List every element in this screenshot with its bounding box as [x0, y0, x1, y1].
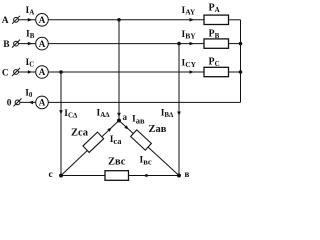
- arrow current IB-delta on dropper: [177, 112, 181, 117]
- svg-text:A: A: [39, 67, 46, 77]
- svg-text:IC∆: IC∆: [64, 109, 78, 120]
- wire phase B from ammeter to resistor PB: [48, 43, 204, 45]
- svg-text:IAY: IAY: [182, 6, 196, 17]
- node b dot: [177, 174, 181, 178]
- impedance Zca: [83, 132, 104, 152]
- arrow current Iab on leg a-b: [124, 125, 129, 129]
- wire neutral 0 from ammeter to right bus: [48, 101, 240, 103]
- svg-text:IBY: IBY: [182, 30, 197, 41]
- svg-text:Iвс: Iвс: [140, 156, 152, 167]
- wire phase C from terminal to ammeter: [18, 71, 35, 73]
- wire dropper phase B to node b: [178, 44, 180, 176]
- arrow current I0 pointing left: [29, 101, 33, 105]
- wire delta leg a to b: [119, 121, 179, 176]
- ammeter phase A: [36, 13, 49, 26]
- terminal A: [12, 16, 20, 24]
- svg-text:IA∆: IA∆: [97, 109, 111, 120]
- ammeter phase B: [36, 37, 49, 50]
- svg-text:0: 0: [7, 99, 12, 109]
- terminal C: [12, 68, 20, 76]
- svg-text:IA: IA: [26, 6, 35, 16]
- junction dot phase C dropper: [59, 70, 63, 74]
- junction dot bus row C: [239, 70, 243, 74]
- ammeter phase C: [36, 66, 49, 79]
- arrow current ICY: [190, 70, 195, 74]
- svg-text:Zав: Zав: [149, 124, 167, 135]
- wire dropper phase A to node a: [118, 20, 120, 121]
- wire delta leg b to c: [61, 175, 179, 177]
- svg-text:Iав: Iав: [132, 115, 145, 126]
- wire delta leg c to a: [61, 121, 119, 176]
- svg-text:IB: IB: [26, 30, 35, 41]
- impedance Zbc: [105, 171, 129, 181]
- terminal 0: [14, 98, 22, 106]
- impedance Zab: [131, 130, 152, 150]
- resistor PB: [204, 39, 229, 48]
- wire phase C from ammeter to resistor PC: [48, 71, 204, 73]
- wire stub PB to bus: [229, 43, 241, 45]
- svg-text:A: A: [39, 39, 46, 49]
- junction dot phase B dropper: [177, 42, 181, 46]
- svg-text:ICY: ICY: [182, 59, 197, 70]
- svg-text:B: B: [3, 40, 10, 50]
- wire stub PC to bus: [229, 71, 241, 73]
- node a dot: [117, 119, 121, 123]
- node c dot: [59, 174, 63, 178]
- wire dropper phase C to node c: [60, 72, 62, 176]
- wire right bus vertical: [240, 20, 242, 103]
- arrow current IAY: [190, 18, 195, 22]
- svg-text:IC: IC: [26, 58, 35, 69]
- terminal B: [12, 40, 20, 48]
- arrow current Ica on leg c-a: [107, 127, 112, 131]
- arrow current IA-delta on dropper: [117, 113, 121, 118]
- wire neutral 0 from terminal to ammeter: [20, 101, 36, 103]
- arrow current IA: [28, 18, 33, 22]
- svg-text:Iса: Iса: [110, 135, 123, 146]
- svg-text:A: A: [39, 98, 46, 108]
- arrow current IC-delta on dropper: [59, 110, 63, 115]
- svg-text:Zвс: Zвс: [108, 157, 126, 168]
- wire phase A from terminal to ammeter: [18, 19, 35, 21]
- svg-text:C: C: [2, 68, 9, 78]
- svg-text:A: A: [2, 16, 9, 26]
- svg-text:I0: I0: [25, 88, 33, 99]
- arrow current IC: [28, 70, 33, 74]
- ammeter neutral 0: [36, 96, 49, 109]
- arrow current IBY: [190, 42, 195, 46]
- arrow current IB: [28, 42, 33, 46]
- svg-text:a: a: [123, 112, 128, 122]
- junction dot bus row B: [239, 42, 243, 46]
- wire phase A from ammeter to resistor PA: [48, 19, 204, 21]
- wire stub PA to bus: [229, 19, 241, 21]
- svg-text:Zса: Zса: [71, 127, 89, 138]
- resistor PC: [204, 67, 229, 76]
- wire phase B from terminal to ammeter: [18, 43, 35, 45]
- svg-text:IB∆: IB∆: [161, 108, 174, 119]
- svg-text:в: в: [185, 169, 190, 179]
- svg-text:c: c: [49, 170, 53, 180]
- svg-text:A: A: [39, 15, 46, 25]
- junction dot phase A dropper: [117, 18, 121, 22]
- resistor PA: [204, 15, 229, 24]
- arrow current Ibc on leg b-c pointing left: [143, 174, 148, 178]
